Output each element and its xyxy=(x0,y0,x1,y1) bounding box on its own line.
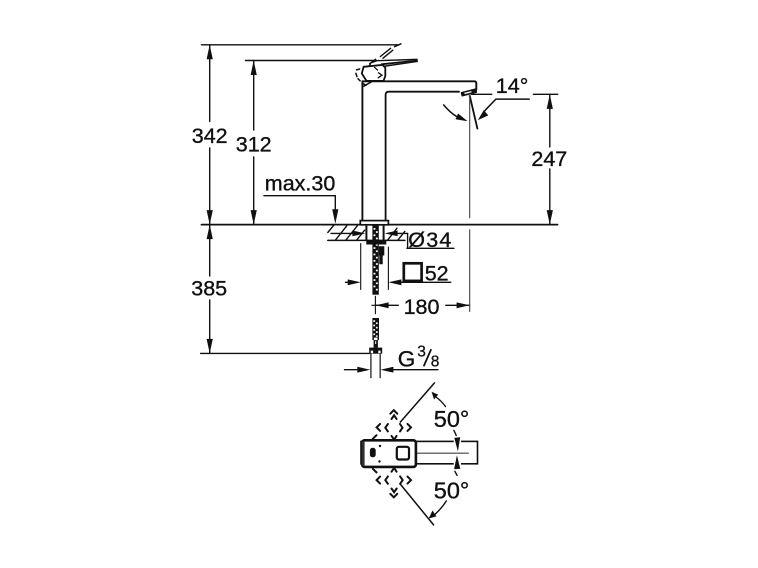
dimension line 247 xyxy=(547,94,553,224)
threaded stud xyxy=(372,225,378,295)
extension line top (y=44.8) xyxy=(202,44,399,46)
svg-text:max.30: max.30 xyxy=(265,172,336,196)
svg-text:52: 52 xyxy=(425,262,449,286)
label max.30 with leader xyxy=(264,172,338,224)
svg-text:312: 312 xyxy=(236,133,272,157)
14 deg arc arrows xyxy=(444,99,530,121)
top view lower 50deg arc and arrows xyxy=(429,455,461,518)
svg-text:G: G xyxy=(398,346,416,371)
dimension line 312 xyxy=(251,61,257,225)
top view upper 50deg line xyxy=(400,383,434,422)
dimension line 385 xyxy=(207,225,213,354)
hose tube G3/8 xyxy=(371,354,380,378)
top view upper 50deg arc and arrows xyxy=(432,392,461,465)
label O34 with leaders xyxy=(331,228,454,252)
faucet raised-lever phantom marks xyxy=(370,44,401,64)
label square 52 with leaders xyxy=(346,244,451,290)
svg-text:14°: 14° xyxy=(496,74,529,98)
extension line 385 bottom (y=353.4) xyxy=(201,352,370,354)
water stream tilted line 14 deg xyxy=(470,96,478,129)
counter slab hatching xyxy=(328,226,405,241)
top view outer rectangle xyxy=(361,441,478,463)
faucet lever block xyxy=(362,65,386,81)
svg-text:50°: 50° xyxy=(434,478,470,504)
top view lever body xyxy=(362,440,416,467)
counter slab bottom line xyxy=(328,239,405,241)
label G 3/8 with leaders xyxy=(345,344,440,373)
svg-text:8: 8 xyxy=(431,354,440,371)
svg-text:385: 385 xyxy=(191,277,227,301)
dimension line 342 xyxy=(207,45,213,225)
svg-text:3: 3 xyxy=(417,344,426,361)
svg-text:247: 247 xyxy=(531,147,567,171)
14 deg reference line xyxy=(472,93,492,95)
top view lower 50deg line xyxy=(401,484,434,525)
dimension line 180 xyxy=(372,302,470,308)
top view centerline xyxy=(417,452,469,454)
faucet aerator tip xyxy=(461,89,476,99)
side clamp piece xyxy=(379,246,385,264)
hose threaded tailpiece xyxy=(372,318,379,348)
mounting shank walls xyxy=(365,226,384,241)
faucet lever blade xyxy=(369,59,417,67)
svg-text:342: 342 xyxy=(192,124,228,148)
faucet base plate xyxy=(360,221,388,225)
top view dashed diamond lower xyxy=(373,468,411,497)
counter top line xyxy=(202,224,558,226)
faucet body column and spout beam xyxy=(362,81,476,220)
stream centerline xyxy=(469,96,471,312)
svg-text:180: 180 xyxy=(404,295,440,319)
washer plate xyxy=(366,240,386,244)
top view dashed diamond upper xyxy=(373,410,411,439)
svg-text:Ø34: Ø34 xyxy=(408,228,452,252)
faucet lever open-position dashes xyxy=(356,69,372,86)
hose nut xyxy=(369,348,382,354)
extension line 312 top (y=60.5) xyxy=(246,60,377,62)
svg-text:50°: 50° xyxy=(434,406,470,432)
hose centerline dash xyxy=(374,296,376,313)
